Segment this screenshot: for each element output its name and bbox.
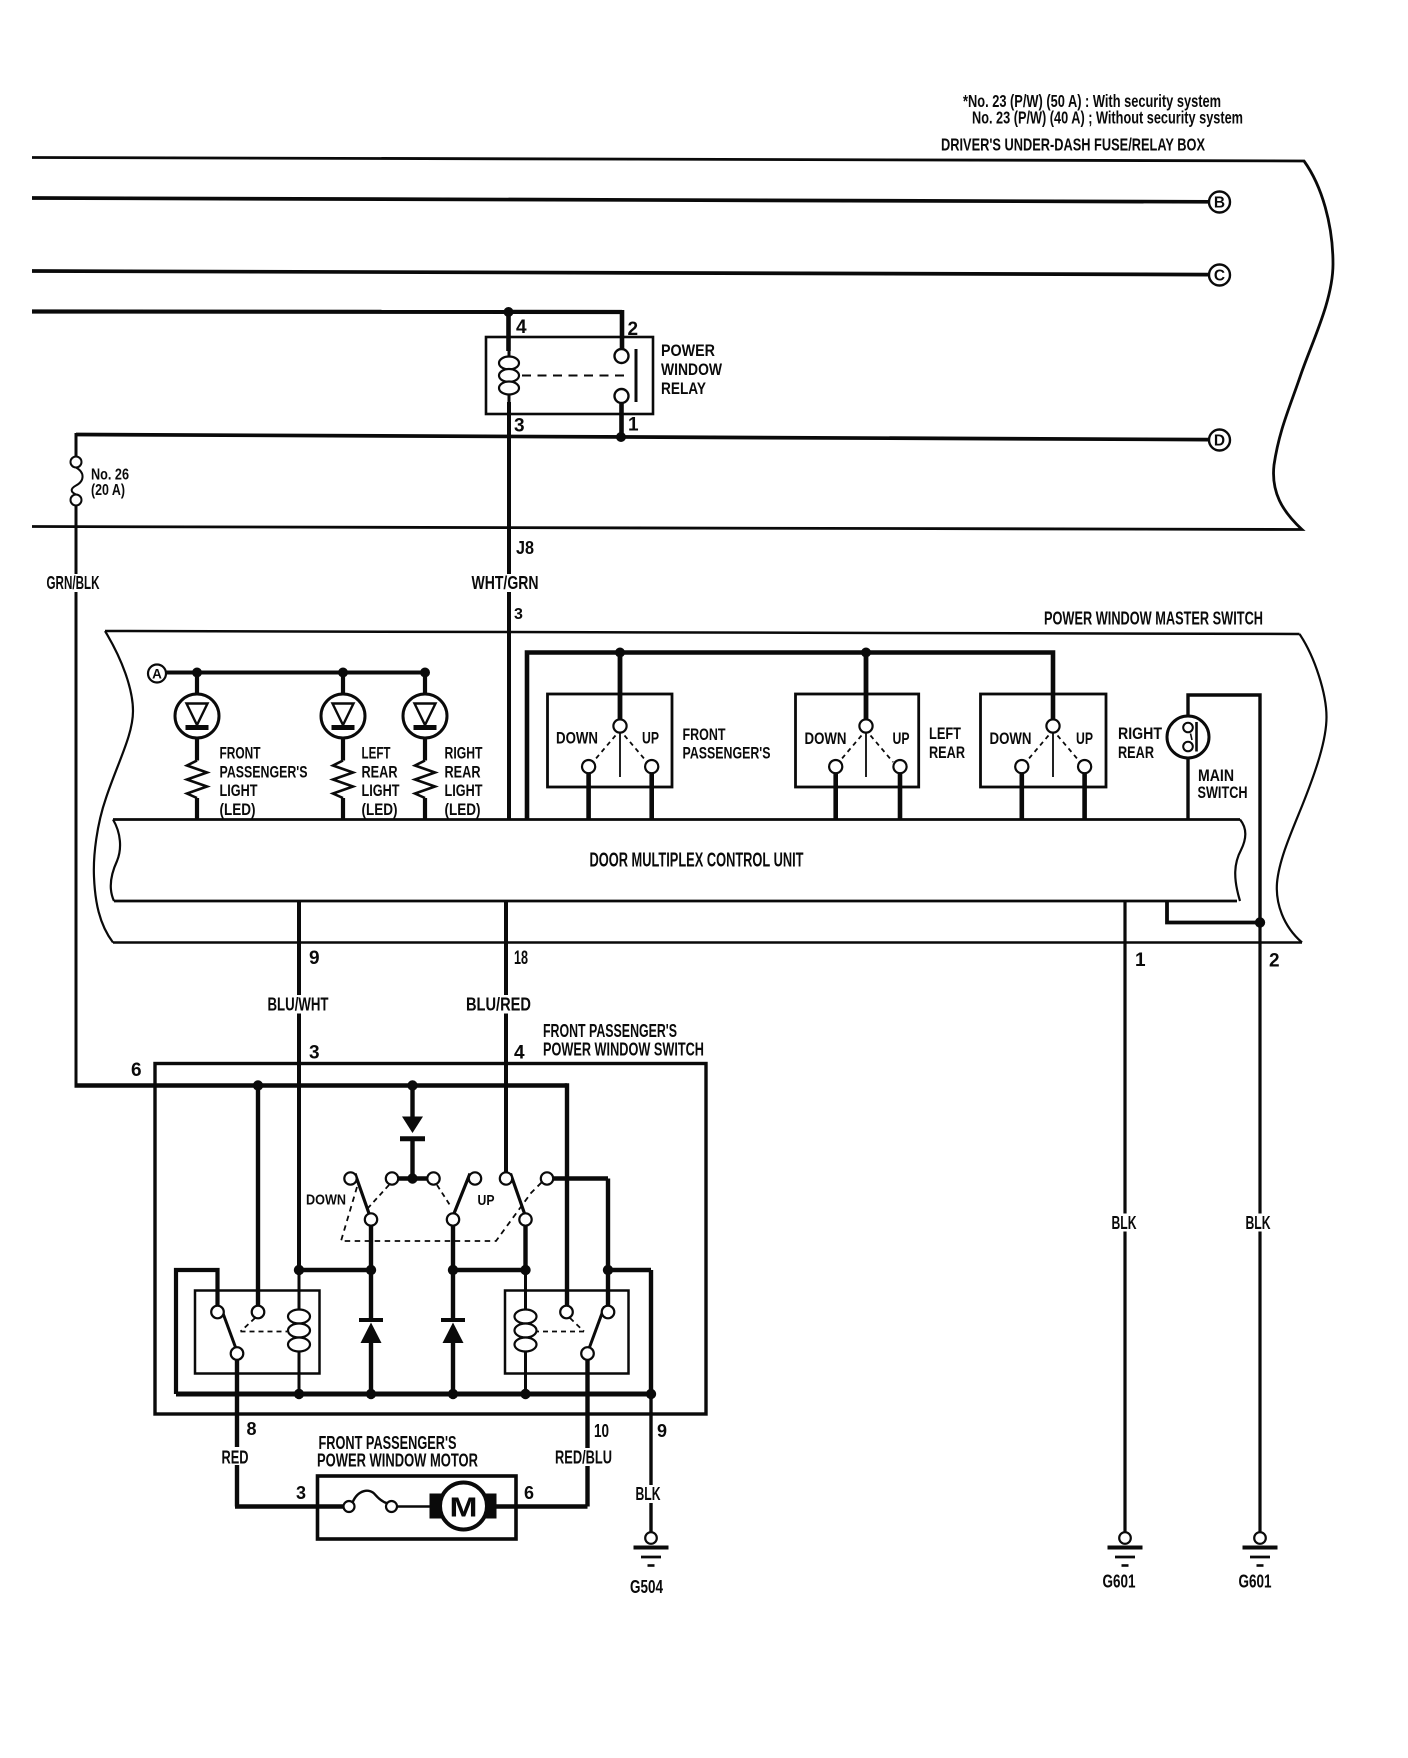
svg-text:GRN/BLK: GRN/BLK [47,572,100,593]
junction dots row y1270 [294,1265,613,1275]
fuse/relay box outline (top border + torn right edge + bottom border) [32,158,1333,530]
svg-text:LIGHT: LIGHT [362,781,400,800]
wire common drop left rear [864,653,869,720]
resistor LED2 [333,761,353,799]
svg-text:POWER WINDOW SWITCH: POWER WINDOW SWITCH [543,1040,704,1060]
wire lower contact 2 to diode D3 [451,1226,455,1320]
wire 9 BLU/WHT [297,901,301,1270]
svg-text:POWER: POWER [661,341,715,360]
label GRN/BLK [43,574,102,592]
front passenger switch box [548,694,673,787]
switch lever down [355,1174,369,1214]
label LEFT REAR [929,724,965,762]
junction dot pin 1 on bus D [616,432,626,442]
label BLU/RED [463,995,534,1014]
svg-text:B: B [1214,195,1225,212]
svg-text:UP: UP [642,729,659,748]
door multiplex control unit box top border [113,818,1240,821]
door multiplex control unit torn right edge [1235,820,1245,902]
wire RED/BLU from K2 to motor [496,1360,588,1507]
label POWER WINDOW RELAY [661,341,723,398]
label RIGHT REAR LIGHT (LED) [445,744,483,819]
svg-text:FRONT PASSENGER'S: FRONT PASSENGER'S [543,1021,677,1041]
svg-text:REAR: REAR [929,743,965,762]
connector D [1209,430,1230,451]
front passenger's power window switch box [155,1064,706,1415]
svg-text:SWITCH: SWITCH [1198,783,1248,802]
svg-text:RELAY: RELAY [661,379,707,398]
svg-text:DOWN: DOWN [306,1192,346,1209]
svg-text:BLK: BLK [636,1483,661,1504]
svg-text:M: M [450,1492,478,1523]
master switch box top border [105,631,1300,634]
relay K1 coil [288,1270,310,1394]
door multiplex control unit box bottom border [114,900,1237,903]
relay K1 lever [221,1307,237,1351]
label LEFT REAR LIGHT (LED) [362,744,400,819]
relay K1 dashed link [241,1318,288,1332]
master switch box torn right edge [1277,634,1327,943]
svg-text:G504: G504 [630,1577,663,1597]
wire pin 1 BLK to ground [1123,901,1126,1532]
junction dot feed left rear [861,648,871,658]
wire bus D [76,435,1209,440]
power window relay box [486,337,653,414]
svg-text:1: 1 [1135,950,1146,971]
diode D2 (lower left) [359,1320,383,1394]
front passenger switch contacts [582,719,658,777]
svg-text:C: C [1214,268,1225,285]
label FRONT PASSENGER'S LIGHT (LED) [220,744,308,819]
wire junction row segment middle [453,1268,526,1272]
svg-text:BLU/WHT: BLU/WHT [268,994,329,1015]
wire bus D left drop to fuse [75,433,78,457]
wire lower contact 3 to right coil [523,1226,527,1270]
svg-text:10: 10 [594,1421,609,1441]
svg-text:REAR: REAR [445,762,481,781]
fuse No.26 (20 A) [71,457,83,506]
wire LED2 to control unit [341,798,345,820]
wire bus feeding relay pins 4 and 2 [32,309,622,314]
left rear switch contacts [829,719,907,777]
wire main switch to control unit [1186,758,1189,820]
circuit breaker [344,1491,398,1512]
junction dot on common bar [407,1173,417,1183]
wire to left relay fixed contact [256,1086,260,1306]
svg-text:4: 4 [516,317,527,338]
wire pin 2 BLK to ground [1258,923,1261,1533]
LED3 right rear light [403,673,447,761]
switch contact circles top row [344,1172,553,1184]
wire front passenger down contact to unit [586,773,591,820]
junction dot LED2 [338,668,348,678]
wire right rear down contact to unit [1019,773,1024,820]
relay K1 (down) box [195,1291,320,1374]
wire switch common bar c2-c3 [392,1176,434,1180]
svg-text:LEFT: LEFT [929,724,961,743]
motor M1 [430,1483,497,1530]
svg-text:POWER WINDOW MASTER SWITCH: POWER WINDOW MASTER SWITCH [1044,608,1263,629]
label BLU/WHT [264,995,331,1014]
wire J8 pin3 long vertical (WHT/GRN) [507,402,511,819]
svg-text:DOWN: DOWN [990,729,1032,748]
wire bus B [32,198,1209,202]
svg-text:G601: G601 [1103,1572,1136,1592]
label FRONT PASSENGER'S [683,725,771,763]
wire main switch top link [1188,695,1260,923]
label BLK wire 1 [1108,1214,1139,1232]
svg-text:BLK: BLK [1246,1213,1271,1233]
wire relay pin 4 drop [506,312,511,351]
label DOWN / UP right rear [990,729,1094,748]
svg-text:UP: UP [1076,729,1093,748]
master switch box torn left edge [94,631,133,943]
svg-text:(20 A): (20 A) [91,482,125,499]
svg-text:FRONT: FRONT [220,744,261,763]
junction dot coil feed left relay [253,1080,263,1090]
svg-text:RED: RED [222,1447,249,1468]
relay K1 contacts [211,1306,264,1360]
wire BLK to G504 [649,1394,652,1532]
svg-text:UP: UP [478,1192,495,1209]
svg-text:PASSENGER'S: PASSENGER'S [220,762,308,781]
label RIGHT REAR [1118,724,1163,762]
svg-text:(LED): (LED) [362,800,398,819]
relay coil [499,350,519,402]
wire control unit L-link to pin 2 [1167,901,1260,923]
wire front passenger up contact to unit [649,773,654,820]
label BLK wire 2 [1242,1214,1273,1232]
svg-text:RIGHT: RIGHT [445,744,483,763]
LED1 front passenger's light [175,673,219,761]
wire breaker to motor [397,1505,431,1508]
junction dot pin 2 [1255,917,1265,927]
dashed link c2 [368,1185,389,1208]
svg-text:18: 18 [514,948,528,969]
connector C [1209,265,1230,286]
svg-text:LIGHT: LIGHT [220,781,258,800]
relay K2 (up) box [505,1291,629,1374]
svg-text:3: 3 [514,606,523,623]
wire ground rail [176,1392,651,1397]
svg-text:WINDOW: WINDOW [661,360,723,379]
wire LED3 to control unit [423,798,427,820]
svg-text:BLK: BLK [1112,1213,1137,1233]
label BLK [632,1485,663,1503]
door multiplex control unit torn left edge [111,820,120,902]
wire GRN/BLK vertical [75,506,78,1086]
wire LED1 to control unit [195,798,199,820]
junction dot at relay pin 4 [504,307,514,317]
relay K2 coil [515,1270,537,1394]
label No. 26 (20 A) [91,467,129,500]
wire junction row segment right [608,1270,651,1394]
junction dots on ground rail [294,1389,656,1399]
wire RED from K1 to motor [235,1360,344,1507]
svg-text:1: 1 [628,415,639,436]
svg-text:DOOR MULTIPLEX CONTROL UNIT: DOOR MULTIPLEX CONTROL UNIT [590,850,804,872]
label DOWN / UP left rear [805,729,910,748]
svg-text:No. 23 (P/W) (40 A) ; Without: No. 23 (P/W) (40 A) ; Without security s… [972,108,1243,128]
svg-text:BLU/RED: BLU/RED [466,994,531,1015]
wire GRN/BLK feed into switch [75,1083,568,1087]
svg-text:REAR: REAR [362,762,398,781]
svg-text:No. 26: No. 26 [91,467,129,484]
wire hook ground link left relay [176,1270,218,1394]
relay K2 lever [589,1307,605,1351]
wire c6 to right relay pivot [553,1179,608,1306]
svg-text:DRIVER'S UNDER-DASH FUSE/RELAY: DRIVER'S UNDER-DASH FUSE/RELAY BOX [941,135,1205,155]
wire relay pin 1 to bus D [619,403,624,437]
svg-text:(LED): (LED) [445,800,481,819]
junction dot LED1 [192,668,202,678]
wire relay pin 2 drop [620,310,625,349]
svg-text:9: 9 [657,1421,667,1441]
relay K2 dashed link [536,1318,584,1332]
relay contact pin 2 [615,349,629,363]
wire common drop front passenger [618,653,623,720]
main switch symbol [1167,716,1209,758]
junction dot LED3 [420,668,430,678]
motor box [318,1476,517,1539]
svg-text:8: 8 [247,1419,257,1439]
svg-text:6: 6 [131,1060,142,1081]
note text fuse No.23 [963,91,1243,128]
relay armature bar [635,349,638,402]
svg-text:(LED): (LED) [220,800,256,819]
resistor LED3 [415,761,435,799]
svg-text:A: A [152,666,162,681]
svg-text:4: 4 [514,1043,525,1064]
relay contact pin 1 [615,389,629,403]
dashed link c3 [437,1185,451,1206]
label FRONT PASSENGER'S POWER WINDOW MOTOR [317,1433,478,1471]
ground G601 right [1243,1532,1278,1565]
switch lever middle [454,1174,470,1214]
wire right rear up contact to unit [1082,773,1087,820]
svg-text:POWER WINDOW MOTOR: POWER WINDOW MOTOR [317,1451,478,1471]
svg-text:DOWN: DOWN [805,729,847,748]
svg-text:DOWN: DOWN [556,729,598,748]
svg-text:6: 6 [524,1483,534,1503]
diode D3 (lower right) [441,1320,465,1394]
ground G504 [634,1532,669,1565]
svg-text:J8: J8 [516,538,534,558]
LED2 left rear light [321,673,365,761]
svg-text:3: 3 [514,416,525,437]
resistor LED1 [187,761,207,799]
right rear switch box [981,694,1107,787]
master switch box bottom border [113,941,1302,944]
wire lower contact 1 to diode D2 [369,1226,373,1320]
wire left rear up contact to unit [898,773,903,820]
svg-text:3: 3 [309,1043,320,1064]
right rear switch contacts [1015,719,1091,777]
svg-text:3: 3 [296,1483,306,1503]
ground G601 left [1108,1532,1143,1565]
svg-text:RED/BLU: RED/BLU [555,1447,612,1468]
relay dashed actuator link [522,375,628,377]
label WHT/GRN [468,574,541,592]
wire bus C [32,271,1209,275]
switch lever up [511,1174,525,1214]
wire switch feed rectangle [527,653,1053,821]
svg-text:2: 2 [1269,951,1280,972]
label RED/BLU [551,1448,614,1466]
junction dot feed front passenger [615,648,625,658]
wire LED supply line from A [166,671,425,675]
svg-text:RIGHT: RIGHT [1118,724,1163,743]
svg-text:WHT/GRN: WHT/GRN [472,572,539,593]
svg-text:LIGHT: LIGHT [445,781,483,800]
svg-text:FRONT: FRONT [683,725,726,744]
connector B [1209,192,1230,213]
wire feed drop to right relay contact [565,1083,569,1305]
svg-text:REAR: REAR [1118,743,1154,762]
node A circle [148,665,166,683]
wire 18 BLU/RED [504,901,508,1179]
dashed actuator trapezoid [341,1182,542,1241]
svg-text:9: 9 [309,948,320,969]
junction dot diode feed [407,1080,417,1090]
left rear switch box [796,694,919,787]
svg-text:G601: G601 [1239,1572,1272,1592]
label RED [218,1447,251,1465]
svg-text:D: D [1214,433,1225,450]
relay K2 contacts [560,1306,614,1360]
wire left rear down contact to unit [833,773,838,820]
switch contact circles bottom row [365,1213,532,1225]
svg-text:PASSENGER'S: PASSENGER'S [683,744,771,763]
label DOWN / UP front passenger [556,729,659,748]
wire junction row segment left [299,1268,371,1272]
label MAIN SWITCH [1198,766,1248,802]
svg-text:UP: UP [893,729,910,748]
label FRONT PASSENGER'S POWER WINDOW SWITCH [543,1021,704,1060]
diode D1 (top) [400,1086,425,1179]
svg-text:LEFT: LEFT [362,744,391,763]
